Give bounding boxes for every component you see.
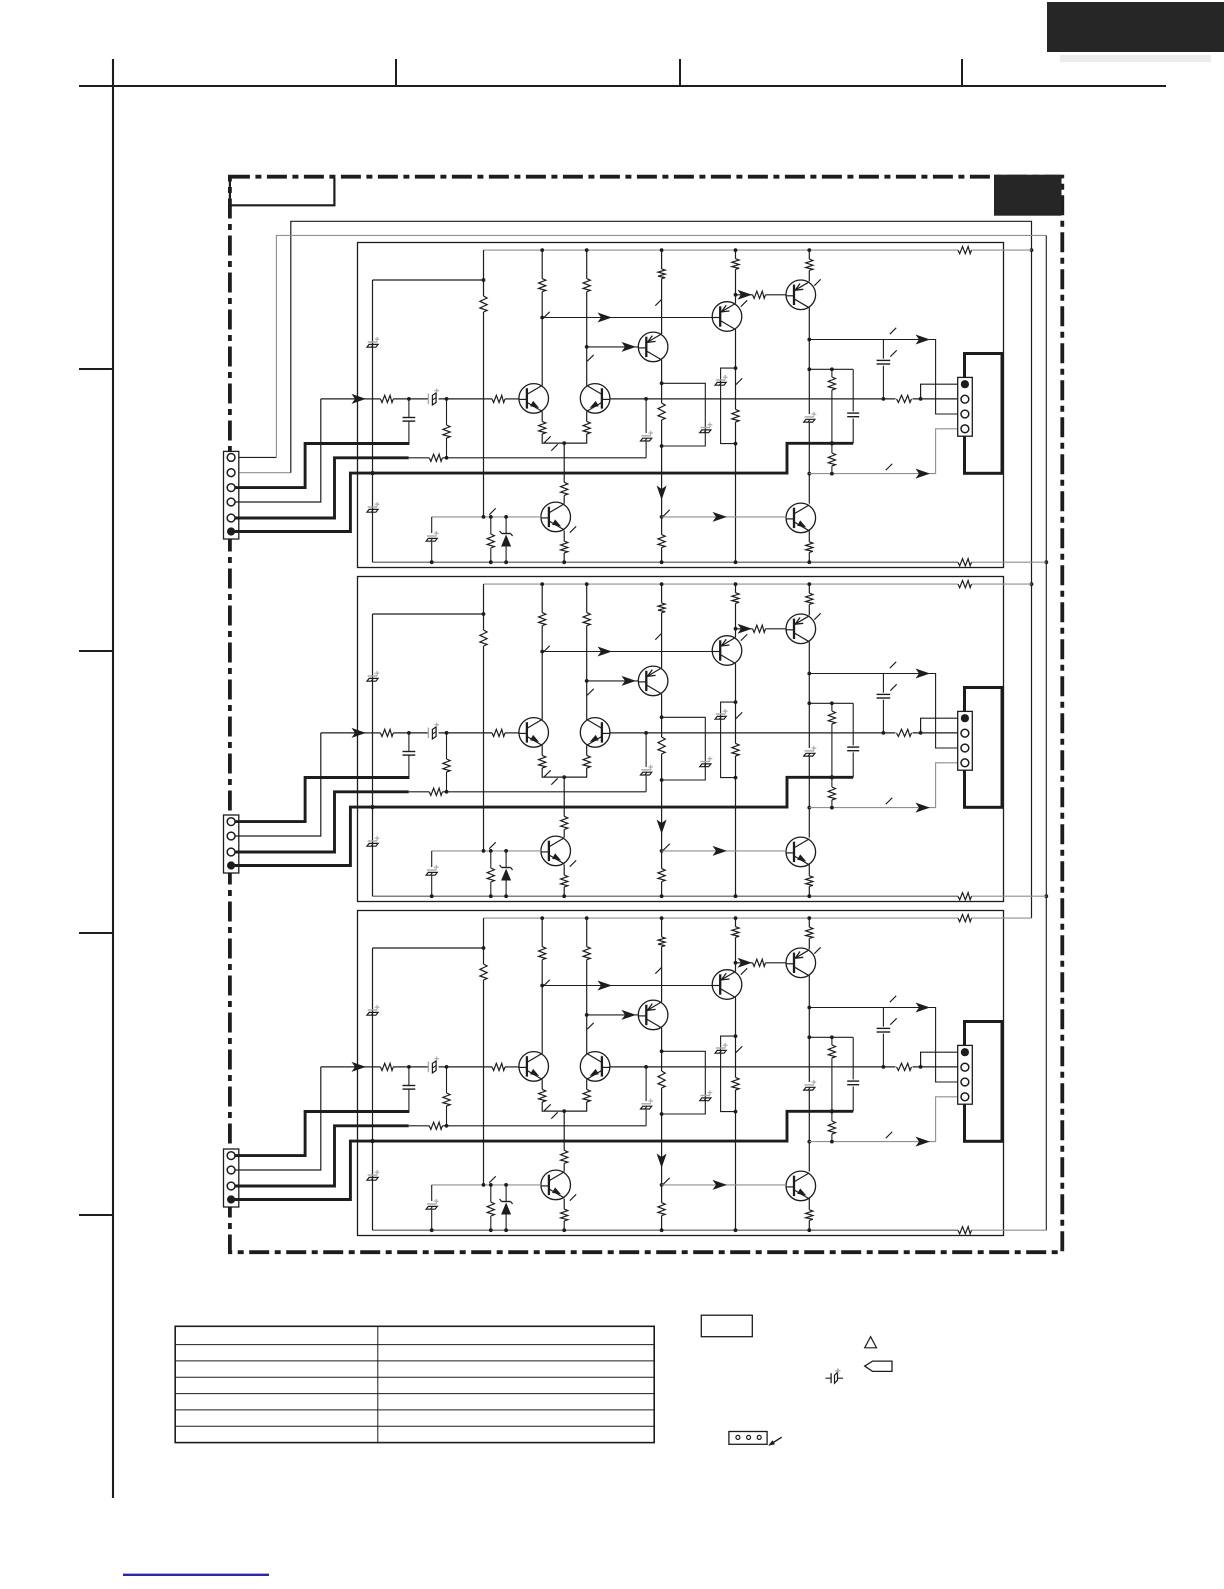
page frame tick left 4 [79,1214,113,1216]
resistor R17 [561,541,568,553]
resistor R1 input series [380,395,393,402]
transistor Q5 driver [786,280,816,310]
feedback loop rect A from pin6 of connector 1 [231,472,291,474]
parts table divider [377,1326,379,1442]
resistor on supply rail to feedback line [958,247,972,254]
legend triangle symbol [865,1337,877,1348]
resistor R2 to Q1 base [492,395,505,402]
amplifier block channel 1 [227,243,1046,568]
capacitor C3 electrolytic [701,427,711,429]
capacitor C2 electrolytic on left bus [368,506,378,508]
wire: upper-left L wire from rail to left bus [483,250,485,280]
zener diode D1 [505,517,507,534]
wire: input signal row [321,398,366,400]
resistor R21 output zobel [896,393,913,405]
wire: Q6 base reference rail [432,516,541,518]
page frame tick left 3 [79,932,113,934]
capacitor C5 electrolytic on bus x809 [805,416,815,418]
resistor R3 on bus x483 [480,296,487,312]
output pin D [961,425,969,433]
resistor R4 [539,279,546,292]
resistor R20 [443,425,450,438]
PCB dash-dot boundary [230,177,1062,1253]
amplifier block channel 2 [227,577,1046,902]
resistor R12 [806,259,813,270]
wire: Q1 emitter resistor to common node [541,411,543,421]
wire: C11 coupling leg [882,340,884,359]
wire: riser with C9 to output row [645,442,647,458]
wire: C3 bypass loop on bus x661 [662,383,706,446]
wire: reference rail left leg with C6 [431,517,433,533]
wire: left bus down to ground rail [372,280,374,562]
wire: pin A stub to output row [921,384,958,399]
resistor R7 [658,403,665,420]
input connector 3 box (4-pin) [224,1149,239,1207]
boundary black label box [994,175,1062,216]
resistor on ground rail to feedback line [958,559,972,566]
wire: gray arrow wire to output pin D [809,429,957,474]
resistor R11 in Q5 base [753,291,766,298]
page frame tick top 3 [961,59,963,86]
wire: arrow wire to Q4 base [542,317,712,319]
resistor R5 [583,279,590,292]
parts table [175,1326,654,1442]
resistor R8 [658,535,665,548]
page frame: top border line [79,85,1166,87]
capacitor C7 electrolytic inline [427,394,429,405]
transistor Q7 output [786,503,816,533]
amplifier block channel 3 [227,911,1046,1236]
output connector 4-pin header [958,377,973,436]
wire: Q2 emitter resistor to common node [586,411,588,421]
wire: bus x542 Q1 collector [541,250,543,279]
slash marks [890,328,896,334]
transistor Q6 current source [541,502,571,532]
wire: C10 leg [852,369,854,411]
wire: input riser from connector pin 2 [231,399,321,502]
wire: thick supply wire from pin1 [231,444,409,488]
resistor R22 [828,377,835,390]
wire: positive supply rail with junctions [484,249,959,251]
resistor R6 [658,269,665,279]
capacitor C8 shunt at input [408,399,410,418]
page frame tick top 1 [395,59,397,86]
footer blue link line [123,1574,269,1576]
wire: tail current source node down to Q6 [563,443,565,482]
resistor R18 bias [490,517,492,534]
legend 3-hole connector symbol [729,1432,767,1445]
transistor Q2 input pair right [580,384,610,414]
resistor R13 [806,542,813,553]
wire: output signal row to connector pin B [610,398,958,400]
feedback loop rect B gray from pin5 of connector 1 [231,456,276,458]
input connector 2 box (4-pin) [224,815,239,873]
wire: Q7 base arrow wire [662,516,786,518]
output pin B [961,395,969,403]
wire: arrow wire to output pin C [809,340,957,415]
resistor R10 [732,409,739,422]
header black label box [1047,2,1224,52]
wire: Q5 base feed with resistor [736,294,753,296]
resistor R19 [429,454,442,461]
wire: bus x661 Q3 collector-emitter chain [661,250,663,269]
boundary notch box [230,178,335,205]
output pin C [961,410,969,418]
wire: Q6 emitter resistor [563,531,565,542]
wire: bus x809 Q5-Q7 chain [808,250,810,259]
connector 1 extra pins [227,454,235,462]
legend electrolytic symbol [826,1368,844,1383]
capacitor C1 electrolytic on left bus [368,341,378,343]
wire: bus x735 Q4 chain [735,250,737,259]
input connector pins 1-4 [227,484,235,492]
wire: arrow wire to Q3 base [587,346,639,348]
transistor Q3 VAS [638,332,668,362]
capacitor C10 [847,412,859,414]
capacitor C11 [877,359,891,361]
wire: C4 bypass loop on bus x735 [721,368,736,444]
page frame: left border line [112,59,114,1498]
junction dots on feedback verticals [1030,248,1034,252]
wire: resistor chain x831 [831,369,833,377]
legend tag symbol [865,1361,892,1371]
wire: R19 junction to C7 node [446,399,448,425]
input connector 1 box (6-pin) [224,451,239,539]
resistor R9 [732,259,739,270]
output pin A filled [961,380,969,388]
wire: bus x586 Q2 collector [586,250,588,279]
capacitor C6 electrolytic [427,535,437,537]
resistor R14 [539,421,546,434]
capacitor C9 electrolytic [641,435,651,437]
wire: feedback lower wire from pin3 with resistor [231,458,409,518]
signal-flow arrow down on bus x661 [657,486,667,501]
resistor R15 [583,421,590,434]
transistor Q4 [712,302,742,332]
capacitor C4 electrolytic [716,379,726,381]
transistor Q1 input pair left [519,384,549,414]
page frame tick left 1 [79,368,113,370]
wire: thick ground wire from pin4 across block [231,443,853,531]
page frame tick left 2 [79,650,113,652]
faint header remnants [1060,55,1211,62]
output connector bracket thick outline [965,354,1003,474]
legend box [701,1315,752,1337]
page frame tick top 2 [679,59,681,86]
resistor R23 [828,453,835,466]
wire: bus to differential pair collector Q1 [483,280,485,296]
wire: Q7 emitter resistor to ground [808,531,810,542]
wire: Q5 collector tap row with C10 [809,368,853,370]
resistor R16 [561,482,568,495]
amplifier channel block outline [358,243,1004,568]
wire: ground rail of block [373,561,959,563]
legend tick mark [770,1437,782,1445]
